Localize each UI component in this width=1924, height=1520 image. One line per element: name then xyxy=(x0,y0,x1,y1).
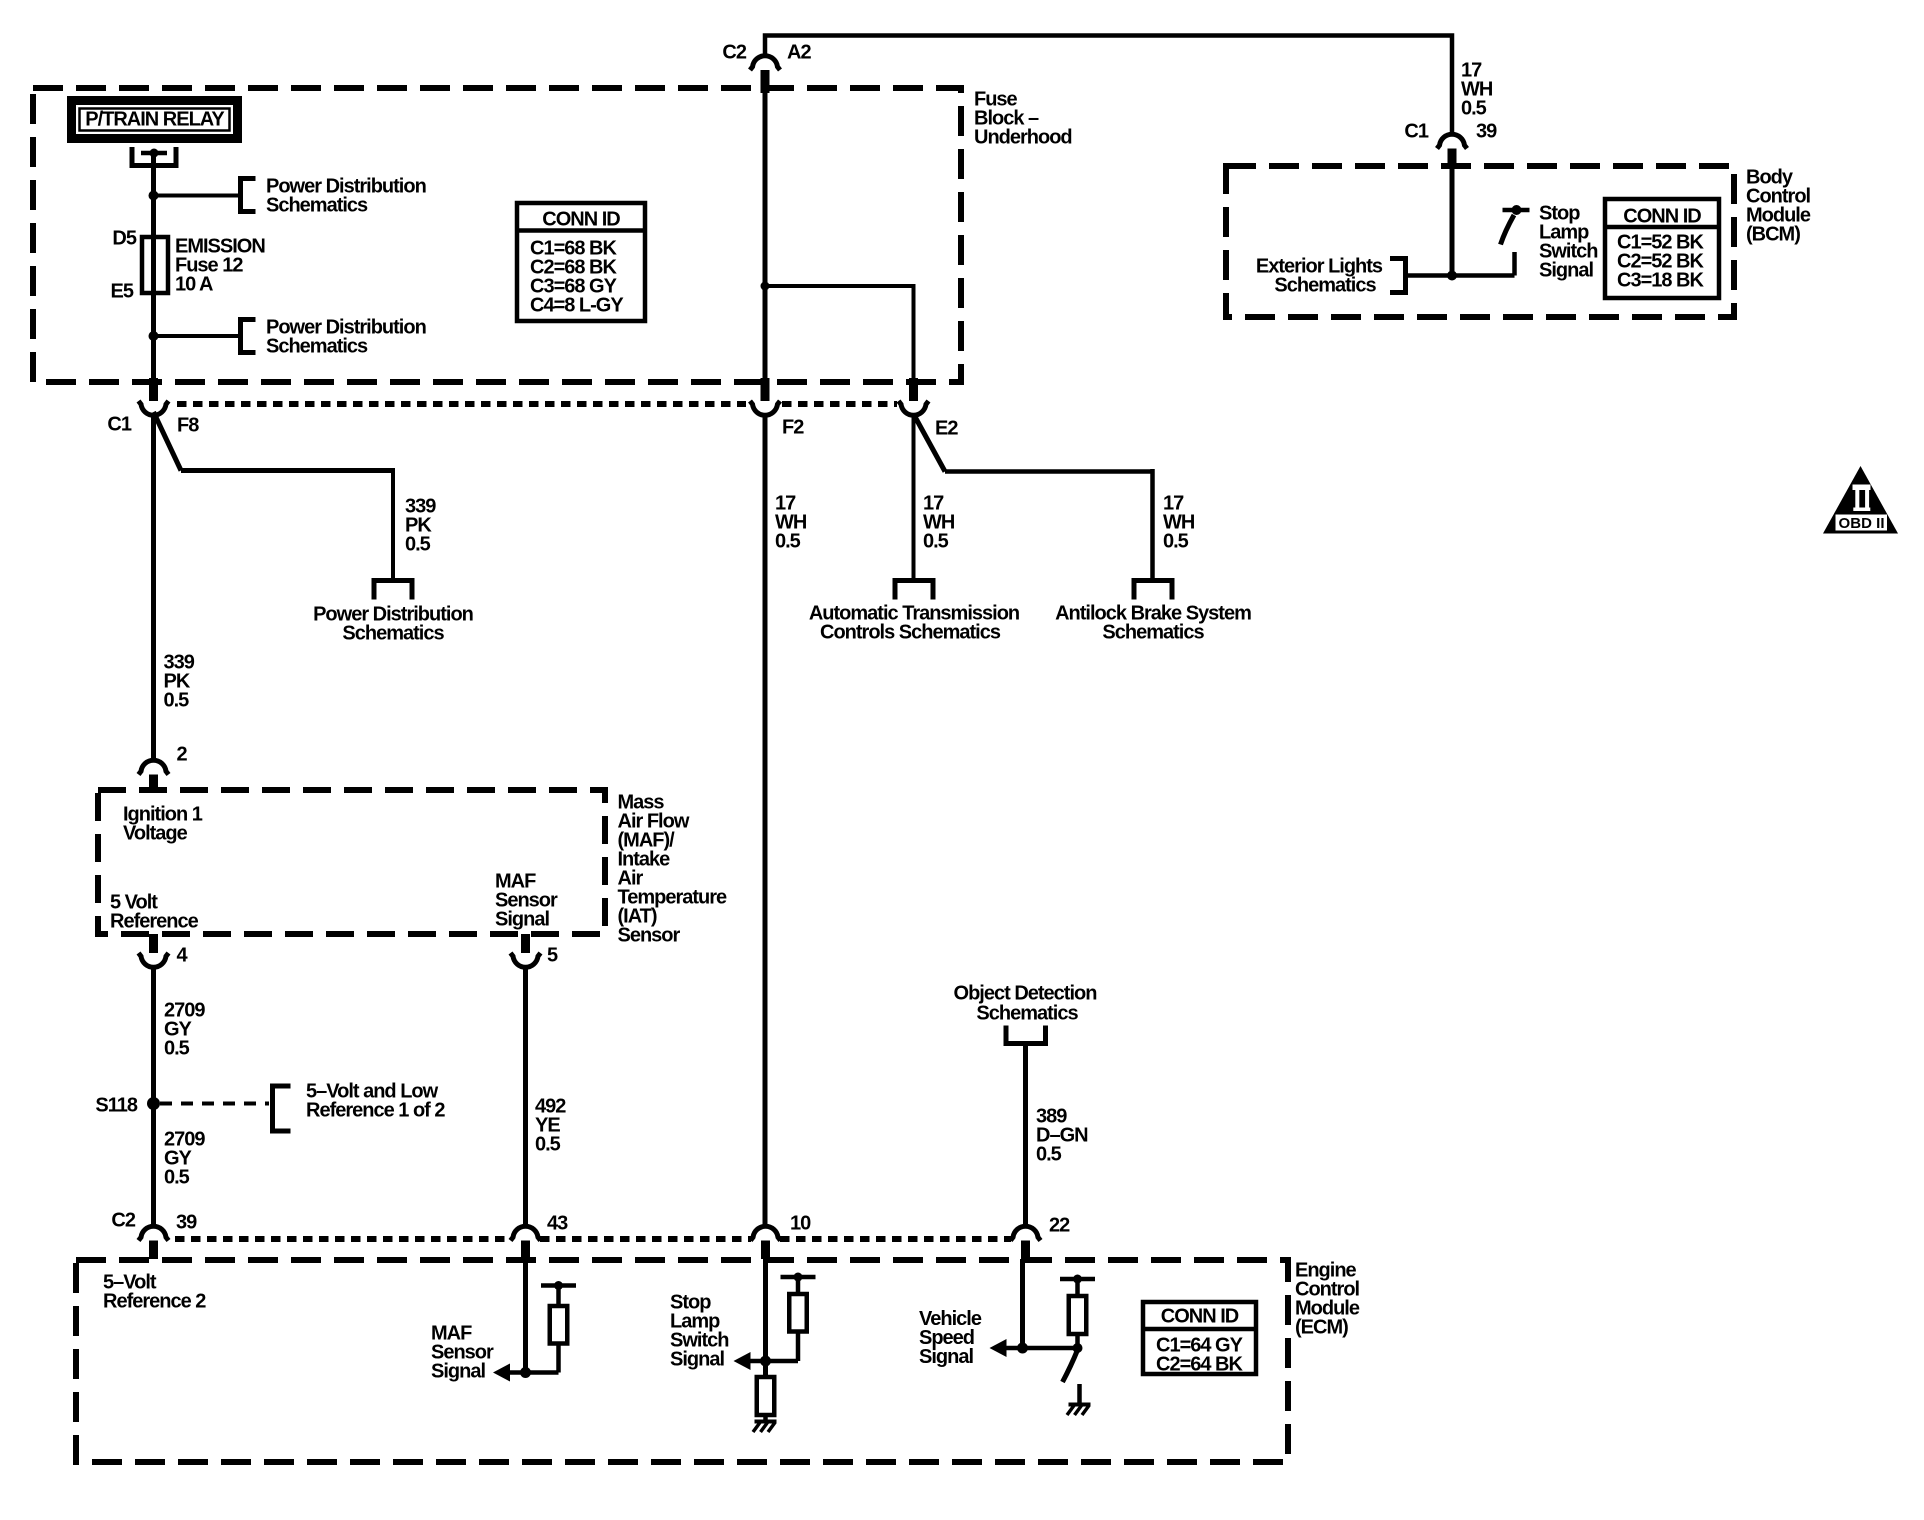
lower power distribution bracket xyxy=(241,320,256,353)
wire R2 to node xyxy=(796,1332,801,1362)
svg-text:C3=18 BK: C3=18 BK xyxy=(1617,270,1704,292)
power distribution reference bracket (F8) xyxy=(374,581,412,600)
wire F2 inside fuse block xyxy=(763,92,768,379)
P/TRAIN relay box xyxy=(72,101,238,139)
svg-text:Schematics: Schematics xyxy=(342,623,444,645)
dashed reference wire from S118 xyxy=(160,1102,269,1106)
wire branch to E2 xyxy=(765,286,914,379)
automatic transmission reference bracket xyxy=(895,581,933,600)
svg-text:F2: F2 xyxy=(782,417,804,439)
svg-text:0.5: 0.5 xyxy=(535,1134,561,1156)
svg-text:OBD II: OBD II xyxy=(1839,515,1885,532)
connector 43 (ECM) xyxy=(511,1226,541,1240)
wire connector 4 to S118 xyxy=(151,967,156,1104)
svg-text:10 A: 10 A xyxy=(175,274,213,296)
svg-text:CONN ID: CONN ID xyxy=(1161,1306,1239,1328)
pull-up T-bar (VSS) xyxy=(1060,1277,1095,1282)
svg-text:S118: S118 xyxy=(95,1095,137,1117)
wire MAF node horizontal xyxy=(508,1370,559,1375)
fuse block - underhood box xyxy=(33,88,961,382)
wire VSS switch to ground xyxy=(1077,1384,1082,1403)
wire E2 branch vertical to ABS xyxy=(1150,469,1155,581)
wire E2 branch horizontal xyxy=(945,469,1153,474)
arrow stop lamp switch signal xyxy=(734,1352,751,1370)
CONN ID table (fuse block) xyxy=(517,203,645,321)
junction dot stop lamp node xyxy=(760,1356,771,1367)
resistor R2 (stop lamp pull-up) xyxy=(789,1294,807,1332)
svg-text:Signal: Signal xyxy=(495,909,549,931)
arrow vehicle speed signal xyxy=(990,1339,1007,1357)
wire VSS node horizontal xyxy=(1004,1346,1078,1351)
svg-text:0.5: 0.5 xyxy=(923,531,949,553)
svg-text:C1: C1 xyxy=(1404,121,1428,143)
stop lamp switch blade xyxy=(1501,215,1515,245)
wire object detection to connector 22 xyxy=(1023,1044,1028,1228)
ground (VSS) xyxy=(1069,1403,1091,1407)
resistor R1 (MAF pull-up) xyxy=(550,1306,568,1344)
connector C1/F8 stub xyxy=(149,378,158,401)
stop lamp switch fixed contact xyxy=(1512,252,1517,276)
svg-text:Signal: Signal xyxy=(1539,260,1593,282)
connector 4 xyxy=(139,953,169,967)
MAF/IAT sensor box (ignition) xyxy=(98,790,605,934)
svg-text:Underhood: Underhood xyxy=(974,127,1072,149)
object detection reference bracket xyxy=(1006,1026,1046,1044)
wire R3 to ground xyxy=(763,1415,768,1420)
wire connector 22 into ECM xyxy=(1020,1259,1025,1348)
svg-text:C1: C1 xyxy=(107,414,131,436)
wire R4 to node xyxy=(1075,1334,1080,1348)
exterior lights bracket xyxy=(1390,259,1406,293)
wire S118 to connector C2/39 xyxy=(151,1104,156,1228)
junction dot lower power distribution xyxy=(149,331,159,341)
svg-text:22: 22 xyxy=(1049,1215,1070,1237)
svg-text:D5: D5 xyxy=(112,228,136,250)
svg-text:0.5: 0.5 xyxy=(1036,1144,1062,1166)
svg-text:0.5: 0.5 xyxy=(164,1167,190,1189)
resistor R4 (VSS pull-up) xyxy=(1069,1296,1087,1334)
svg-text:Schematics: Schematics xyxy=(1274,275,1376,297)
svg-text:E5: E5 xyxy=(111,281,134,303)
wire top run from connector C2/A2 to BCM xyxy=(765,36,1452,136)
connector E2 stub xyxy=(909,378,918,401)
svg-text:C2: C2 xyxy=(722,42,746,64)
wire F8 branch vertical xyxy=(391,468,395,581)
svg-text:F8: F8 xyxy=(177,415,199,437)
relay contact symbol xyxy=(132,147,176,166)
wire connector 5 to connector 43 xyxy=(523,967,528,1227)
svg-text:Voltage: Voltage xyxy=(123,823,188,845)
wire E2 branch diagonal xyxy=(914,414,946,472)
connector C2/39 (ECM) xyxy=(139,1226,169,1240)
svg-text:Reference: Reference xyxy=(110,911,199,933)
arrow MAF sensor signal xyxy=(493,1364,510,1382)
svg-text:C2: C2 xyxy=(111,1210,135,1232)
wire E2 to automatic transmission reference xyxy=(912,414,916,581)
OBD II symbol xyxy=(1823,466,1898,534)
wire connector 10 into ECM xyxy=(763,1259,768,1361)
pull-up T-bar (stop lamp) xyxy=(781,1275,816,1280)
wire BCM C1/39 to junction xyxy=(1450,168,1455,276)
junction dot fuse block E2 branch xyxy=(761,282,770,291)
wire F2 to ECM xyxy=(763,416,768,1228)
junction dot VSS node xyxy=(1017,1343,1028,1354)
5-volt low reference bracket xyxy=(273,1086,291,1131)
wire node to R3 xyxy=(763,1361,768,1377)
junction dot MAF node xyxy=(520,1367,531,1378)
svg-text:Reference 2: Reference 2 xyxy=(103,1291,206,1313)
svg-text:Signal: Signal xyxy=(919,1346,973,1368)
svg-text:CONN ID: CONN ID xyxy=(1623,206,1701,228)
svg-text:2: 2 xyxy=(177,744,188,766)
svg-text:Controls Schematics: Controls Schematics xyxy=(820,622,1001,644)
svg-text:(BCM): (BCM) xyxy=(1746,224,1800,246)
upper power distribution bracket xyxy=(241,179,256,212)
svg-text:P/TRAIN RELAY: P/TRAIN RELAY xyxy=(85,109,225,131)
svg-text:0.5: 0.5 xyxy=(164,690,190,712)
svg-text:C4=8 L-GY: C4=8 L-GY xyxy=(530,295,624,317)
CONN ID table (ECM) xyxy=(1143,1302,1256,1374)
svg-text:Schematics: Schematics xyxy=(266,336,368,358)
svg-text:0.5: 0.5 xyxy=(1461,98,1487,120)
dotted connector row (fuse block outputs) xyxy=(177,401,746,407)
connector C1/F8 xyxy=(139,401,169,415)
CONN ID table (BCM) xyxy=(1605,199,1719,298)
wire F8 branch diagonal xyxy=(154,412,182,471)
svg-text:Object Detection: Object Detection xyxy=(954,983,1097,1005)
wire fuse to connector C1/F8 xyxy=(151,237,156,379)
dotted connector row (ECM inputs) xyxy=(175,1236,511,1242)
wire to upper power distribution reference xyxy=(154,194,241,198)
pull-up T-bar (MAF) xyxy=(541,1283,576,1288)
connector E2 xyxy=(899,401,929,415)
ECM box xyxy=(76,1260,1288,1462)
connector 4 stub xyxy=(149,934,158,953)
splice S118 xyxy=(147,1097,160,1110)
connector F2 xyxy=(750,401,780,415)
svg-text:Schematics: Schematics xyxy=(1102,622,1204,644)
svg-text:Schematics: Schematics xyxy=(976,1003,1078,1025)
connector 2 xyxy=(139,760,169,774)
fuse F12 EMISSION 10A xyxy=(142,237,168,293)
wire C1/F8 to ignition box xyxy=(151,416,156,761)
svg-text:Schematics: Schematics xyxy=(266,195,368,217)
svg-text:0.5: 0.5 xyxy=(164,1038,190,1060)
VSS switch blade xyxy=(1063,1350,1078,1382)
svg-text:39: 39 xyxy=(176,1212,197,1234)
connector 10 (ECM) xyxy=(751,1226,781,1240)
svg-text:0.5: 0.5 xyxy=(405,534,431,556)
junction dot BCM xyxy=(1447,271,1457,281)
svg-text:Reference 1 of 2: Reference 1 of 2 xyxy=(306,1100,445,1122)
wire stop lamp node horizontal xyxy=(748,1359,798,1364)
connector C2/A2 xyxy=(750,56,780,70)
svg-text:39: 39 xyxy=(1476,121,1497,143)
connector 5 xyxy=(511,953,541,967)
ground (stop lamp) xyxy=(755,1420,777,1424)
wire relay to fuse xyxy=(151,155,156,239)
svg-text:43: 43 xyxy=(547,1213,568,1235)
resistor R3 (stop lamp pull-down) xyxy=(757,1377,775,1415)
svg-text:A2: A2 xyxy=(787,42,811,64)
stop lamp switch pivot xyxy=(1503,208,1530,213)
svg-text:0.5: 0.5 xyxy=(1163,531,1189,553)
svg-text:(ECM): (ECM) xyxy=(1295,1317,1348,1339)
svg-text:Sensor: Sensor xyxy=(618,925,681,947)
svg-text:0.5: 0.5 xyxy=(775,531,801,553)
svg-text:Signal: Signal xyxy=(431,1361,485,1383)
wire F8 branch horizontal xyxy=(181,468,393,473)
svg-text:C2=64 BK: C2=64 BK xyxy=(1156,1354,1243,1376)
connector C1/39 (BCM) xyxy=(1437,134,1467,148)
connector F2 stub xyxy=(761,378,770,401)
wire exterior lights to switch xyxy=(1406,273,1515,278)
connector 22 (ECM) xyxy=(1011,1226,1041,1240)
wire R1 to node xyxy=(556,1344,561,1373)
connector 5 stub xyxy=(521,934,530,953)
svg-text:CONN ID: CONN ID xyxy=(542,209,620,231)
svg-text:10: 10 xyxy=(790,1213,811,1235)
wire to lower power distribution reference xyxy=(154,334,241,338)
svg-text:E2: E2 xyxy=(935,418,958,440)
junction dot upper power distribution xyxy=(149,191,159,201)
BCM box xyxy=(1226,166,1734,317)
svg-text:Signal: Signal xyxy=(670,1349,724,1371)
wire connector 43 into ECM xyxy=(523,1259,528,1373)
antilock brake reference bracket xyxy=(1134,581,1172,600)
svg-text:5: 5 xyxy=(547,945,558,967)
